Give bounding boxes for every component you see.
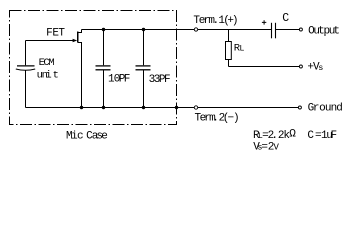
- svg-text:Output: Output: [308, 26, 340, 38]
- svg-text:+Vs: +Vs: [307, 62, 323, 74]
- svg-text:Term.2(−): Term.2(−): [195, 113, 240, 125]
- svg-text:ECM: ECM: [39, 57, 55, 69]
- svg-text:L: L: [239, 44, 244, 54]
- svg-text:Mic Case: Mic Case: [66, 130, 108, 142]
- svg-text:unit: unit: [37, 69, 59, 81]
- svg-text:Vs=2V: Vs=2V: [253, 141, 279, 153]
- svg-text:Term.1(+): Term.1(+): [193, 15, 238, 27]
- svg-text:RL=2.2kΩC=1uF: RL=2.2kΩC=1uF: [253, 129, 337, 142]
- svg-text:C: C: [282, 12, 289, 25]
- svg-text:10PF: 10PF: [108, 74, 130, 86]
- svg-text:FET: FET: [46, 28, 65, 40]
- svg-text:Ground: Ground: [308, 102, 343, 114]
- svg-text:33PF: 33PF: [149, 74, 171, 86]
